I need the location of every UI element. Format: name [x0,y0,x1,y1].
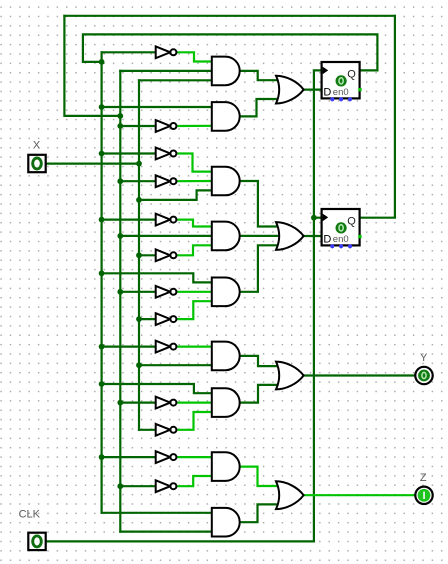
junction rail A y=61.9 [99,59,105,65]
wire G4 output to A3 middle input [177,180,214,182]
junction rail A y=107.0 [99,104,105,110]
wire rail A tap to G12 input [102,456,157,458]
inverter G10 [156,397,177,409]
wire A3 output to O2 top input [240,181,281,227]
wire O2 output to U2 D input [304,235,322,237]
AND gate A9 [212,508,240,537]
inverter G4 [156,175,177,187]
OR gate O4 [276,481,304,509]
inverter G1 [156,46,177,58]
wire A2 output to O1 bottom input [240,99,281,116]
input pin X [28,155,45,172]
OR gate O3 [276,362,304,390]
junction rail A y=346.6 [99,344,105,350]
wire rail A tap stepping down to A7 top input [102,384,213,393]
svg-text:en0: en0 [333,87,349,98]
wire W1 feedback left vertical down to rail B [64,16,120,116]
junction rail B y=486.2 [117,483,123,489]
D flip-flop U1 [322,62,362,101]
wire A9 output to O4 bottom input [240,504,281,522]
junction rail B y=235.9 [117,233,123,239]
wire rail A tap to G5 input [102,219,157,221]
wire W1 feedback from U2 Q (right vertical) [360,16,395,218]
wire W2 feedback from U1 Q [83,34,378,70]
wire rail A vertical [100,52,102,513]
inverter G5 [156,214,177,226]
wire G10 output to A7 middle input [177,402,214,404]
inverter G2 [156,120,177,132]
junction rail A y=273.3 [99,270,105,276]
wire rail B top corner to A1 middle input [120,70,213,72]
wire rail A top corner to G1 input [102,51,157,53]
junction rail C y=255.3 [136,252,142,258]
svg-text:Z: Z [420,472,427,484]
wire rail C tap to G6 input [139,254,157,256]
svg-text:en0: en0 [333,234,349,245]
wire rail B tap to G10 input [120,402,156,404]
wire rail B tap to G4 input [120,180,156,182]
wire rail B tap to G2 input [120,125,156,127]
wire G11 output to A7 bottom input [177,412,214,430]
wire rail C vertical [138,80,140,430]
junction rail B y=402.6 [117,400,123,406]
junction rail C y=319.1 [136,316,142,322]
svg-text:Y: Y [420,352,428,364]
svg-text:X: X [33,140,41,152]
wire O3 output to output pin Y [304,374,416,376]
wire rail C tap to A6 bottom input [139,364,213,366]
inverter G8 [156,313,177,325]
wire A1 output to O1 top input [240,71,281,80]
wire G1 output to A1 top input [177,52,214,61]
inverter G6 [156,249,177,261]
inverter G7 [156,286,177,298]
wire rail B tap to G13 input [120,485,156,487]
wire G12 output to A8 top input [177,456,214,458]
wire G6 output to A4 bottom input [177,245,214,255]
AND gate A1 [212,57,240,86]
AND gate A6 [212,342,240,371]
wire O1 output to U1 D input [304,88,322,90]
wire A7 output to O3 bottom input [240,385,281,403]
AND gate A4 [212,222,240,251]
wire G3 output to A3 top input [177,154,214,172]
junction rail B y=291.8 [117,289,123,295]
svg-text:Q: Q [347,69,356,81]
D flip-flop U2 [322,209,362,248]
wire rail A tap to A2 top input [102,106,213,108]
output pin Z [415,487,432,504]
wire rail A tap stepping down to A5 top input [102,273,213,282]
wire rail A bottom corner to A9 top input [102,512,213,514]
AND gate A5 [212,278,240,307]
wire G7 output to A5 middle input [177,291,214,293]
wire G5 output to A4 top input [177,220,214,227]
inverter G12 [156,451,177,463]
junction rail C y=199.9 [136,197,142,203]
junction rail A y=457.1 [99,454,105,460]
wire G9 output to A6 top input [177,346,214,348]
wire rail C tap stepping up to A3 bottom input [139,190,213,200]
junction rail B y=181.2 [117,178,123,184]
AND gate A2 [212,102,240,131]
wire CLK branch into U2 clock [314,217,322,219]
wire rail A tap to G9 input [102,346,157,348]
wire from input X to rail C [46,163,139,165]
AND gate A3 [212,167,240,196]
wire from input CLK along bottom and up to flip-flops [46,70,322,541]
output pin Y [415,367,432,384]
OR gate O1 [276,76,304,104]
wire G8 output to A5 bottom input [177,301,214,319]
wire rail B vertical [119,71,121,532]
input pin CLK [28,533,45,550]
wire G13 output to A8 bottom input [177,476,214,486]
AND gate A8 [212,452,240,481]
wire rail C top corner to A1 bottom input [139,79,213,81]
wire A6 output to O3 top input [240,356,281,366]
junction rail C y=163.6 [136,161,142,167]
AND gate A7 [212,388,240,417]
wire W1 feedback top horizontal [64,15,395,17]
wire rail C bottom corner to G11 input [139,429,157,431]
junction rail B y=115.9 [117,113,123,119]
svg-text:D: D [323,233,331,245]
inverter G11 [156,424,177,436]
junction rail A y=384.0 [99,381,105,387]
inverter G9 [156,341,177,353]
wire G2 output to A2 bottom input [177,125,214,127]
junction rail A y=219.6 [99,217,105,223]
wire A4 output to O2 middle input [240,235,281,237]
wire rail A tap to G3 input [102,152,157,154]
inverter G13 [156,480,177,492]
wire O4 output to output pin Z [304,494,416,496]
junction rail C y=365.2 [136,362,142,368]
wire rail B tap to G7 input [120,291,156,293]
wire rail B bottom corner to A9 bottom input [120,530,213,532]
wire rail B tap to A4 middle input [120,235,213,237]
OR gate O2 [276,222,304,250]
svg-text:CLK: CLK [19,509,41,521]
wire A5 output to O2 bottom input [240,245,281,291]
wire rail C tap to G8 input [139,318,157,320]
svg-text:Q: Q [347,216,356,228]
svg-text:D: D [323,86,331,98]
junction rail B y=126.0 [117,123,123,129]
junction rail A y=153.5 [99,151,105,157]
wire A8 output to O4 top input [240,467,281,486]
inverter G3 [156,148,177,160]
junction CLK at U2 clock [311,215,317,221]
